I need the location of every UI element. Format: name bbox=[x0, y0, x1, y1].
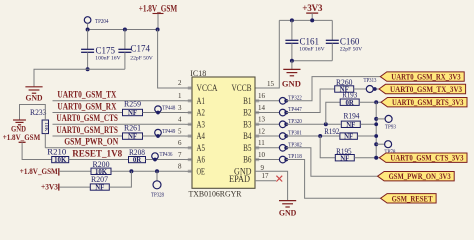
wire B3 to R193 bbox=[326, 102, 341, 124]
svg-text:15: 15 bbox=[267, 80, 275, 88]
junction at C174 bbox=[123, 28, 127, 32]
wire +1.8V to R210 bbox=[22, 142, 52, 159]
wire TP313 to flag TX bbox=[373, 88, 379, 90]
wire B6 to flag RESET bbox=[286, 160, 380, 199]
svg-text:R207: R207 bbox=[91, 175, 108, 184]
wire B1 to flag RX bbox=[286, 77, 380, 101]
svg-text:16: 16 bbox=[258, 92, 266, 100]
test point TP204 bbox=[84, 17, 108, 30]
resistor R260 bbox=[335, 78, 354, 94]
svg-text:A6: A6 bbox=[197, 156, 206, 166]
wire R194 to node bbox=[360, 123, 376, 125]
svg-text:NF: NF bbox=[340, 155, 349, 162]
wire UART0_GSM_TX bbox=[53, 100, 186, 102]
svg-text:TP204: TP204 bbox=[95, 19, 109, 25]
svg-text:+1.8V_GSM: +1.8V_GSM bbox=[3, 132, 41, 142]
svg-text:R259: R259 bbox=[124, 100, 141, 109]
test point TP328 bbox=[151, 171, 164, 198]
junction at C161 bbox=[290, 18, 294, 22]
capacitor C161 bbox=[285, 20, 324, 60]
svg-text:0R: 0R bbox=[133, 157, 141, 164]
svg-text:R233: R233 bbox=[30, 108, 47, 117]
junction node flag CTS bbox=[374, 156, 378, 160]
wire B5 to flag PWR bbox=[286, 148, 377, 176]
svg-text:A1: A1 bbox=[197, 97, 206, 107]
wire R260 to TP313 bbox=[354, 88, 367, 90]
wire B4 to R195 bbox=[320, 136, 335, 158]
test point TP322 bbox=[255, 95, 302, 104]
svg-text:NF: NF bbox=[346, 122, 355, 129]
junction at TP204/C175 bbox=[86, 28, 90, 32]
svg-text:C174: C174 bbox=[131, 44, 151, 54]
resistor R208 bbox=[129, 148, 146, 164]
svg-text:UART0_GSM_RX_3V3: UART0_GSM_RX_3V3 bbox=[391, 72, 461, 82]
svg-text:VCCA: VCCA bbox=[197, 84, 218, 94]
svg-text:GND: GND bbox=[279, 208, 297, 218]
wire OE node bbox=[111, 170, 185, 172]
junction OE/R207 bbox=[129, 169, 133, 173]
svg-text:A5: A5 bbox=[197, 144, 206, 154]
junction node TP78 bbox=[374, 142, 378, 146]
capacitor C160 bbox=[326, 20, 362, 60]
svg-text:R210: R210 bbox=[47, 147, 66, 156]
wire R233 top to ground bbox=[20, 105, 46, 121]
junction B3 branch bbox=[324, 122, 328, 126]
test point TP449 bbox=[155, 129, 176, 138]
junction node R192 bbox=[374, 134, 378, 138]
svg-text:C160: C160 bbox=[340, 37, 360, 47]
test point TP302 bbox=[255, 142, 302, 151]
junction OE/TP328 bbox=[155, 169, 159, 173]
svg-text:+1.8V_GSM: +1.8V_GSM bbox=[20, 166, 58, 176]
capacitor C174 bbox=[118, 30, 152, 70]
power port +1.8V_GSM (bottom) bbox=[20, 166, 59, 176]
wire R193 to flag RTS bbox=[359, 101, 381, 103]
svg-text:R194: R194 bbox=[344, 111, 360, 120]
svg-text:TP93: TP93 bbox=[385, 125, 396, 131]
svg-text:TP436: TP436 bbox=[160, 152, 173, 158]
svg-text:10: 10 bbox=[258, 151, 266, 159]
svg-text:R192: R192 bbox=[324, 127, 339, 136]
svg-text:GSM_PWR_ON_3V3: GSM_PWR_ON_3V3 bbox=[389, 171, 452, 181]
svg-text:7: 7 bbox=[178, 151, 182, 159]
svg-text:B6: B6 bbox=[243, 156, 252, 166]
test point TP118 bbox=[255, 154, 302, 163]
flag UART0_GSM_RTS_3V3 bbox=[381, 98, 467, 107]
svg-text:RESET_1V8: RESET_1V8 bbox=[72, 149, 122, 159]
ground (pin 9) bbox=[279, 201, 297, 218]
wire B4 bbox=[286, 135, 340, 137]
svg-text:UART0_GSM_RTS: UART0_GSM_RTS bbox=[56, 126, 118, 136]
svg-text:UART0_GSM_TX_3V3: UART0_GSM_TX_3V3 bbox=[390, 84, 463, 94]
resistor R194 bbox=[341, 111, 360, 128]
wire +1.8V rail bbox=[88, 29, 158, 31]
wire UART0_GSM_RX right bbox=[143, 112, 186, 114]
junction TP313 bbox=[373, 87, 377, 91]
wire R233 bottom bbox=[44, 134, 46, 148]
junction caps GND join bbox=[86, 67, 90, 71]
wire +3V3 to R207 bbox=[59, 186, 90, 188]
wire UART0_GSM_RTS right bbox=[143, 135, 186, 137]
ground (top-left) bbox=[25, 87, 42, 103]
wire R192 to node bbox=[357, 135, 376, 137]
svg-text:A3: A3 bbox=[197, 120, 206, 130]
svg-text:2: 2 bbox=[178, 79, 182, 87]
svg-text:B2: B2 bbox=[243, 109, 252, 119]
wire caps to ground bbox=[34, 69, 125, 86]
flag GSM_PWR_ON_3V3 bbox=[378, 172, 455, 181]
wire UART0_GSM_RTS left bbox=[53, 135, 123, 137]
flag UART0_GSM_CTS_3V3 bbox=[379, 153, 467, 162]
node vertical bbox=[375, 102, 377, 158]
svg-text:R193: R193 bbox=[342, 91, 357, 100]
svg-text:GND: GND bbox=[26, 93, 43, 103]
svg-text:NF: NF bbox=[128, 134, 137, 141]
wire UART0_GSM_RX left bbox=[53, 112, 123, 114]
resistor R259 bbox=[123, 100, 143, 118]
IC18 left pin stubs and numbers bbox=[185, 87, 192, 89]
resistor R195 bbox=[335, 147, 354, 163]
resistor R193 bbox=[340, 91, 359, 107]
wire UART0_GSM_CTS bbox=[53, 123, 186, 125]
wire C160 bottom join bbox=[292, 60, 332, 62]
svg-text:C175: C175 bbox=[96, 46, 116, 56]
svg-text:100nF 16V: 100nF 16V bbox=[299, 47, 324, 53]
ground (R233) bbox=[11, 120, 26, 134]
power port +3V3 (bottom) bbox=[41, 182, 59, 191]
wire pin9 to ground bbox=[255, 171, 288, 200]
wire GSM_PWR_ON bbox=[45, 147, 185, 149]
svg-text:B5: B5 bbox=[243, 144, 252, 154]
svg-text:22pF 50V: 22pF 50V bbox=[340, 47, 363, 53]
svg-text:0R: 0R bbox=[346, 100, 354, 107]
svg-text:22pF 50V: 22pF 50V bbox=[130, 56, 153, 62]
svg-text:+3V3: +3V3 bbox=[302, 3, 323, 13]
svg-text:NF: NF bbox=[128, 110, 137, 117]
junction +3V3 stub bbox=[310, 18, 314, 22]
svg-text:8: 8 bbox=[178, 163, 182, 171]
svg-text:TXB0106RGYR: TXB0106RGYR bbox=[189, 189, 242, 199]
svg-text:11: 11 bbox=[258, 139, 265, 147]
test point TP320 bbox=[255, 119, 302, 128]
resistor R233 bbox=[30, 108, 49, 133]
resistor R207 bbox=[90, 175, 109, 192]
wire R195 to flag CTS bbox=[354, 157, 379, 159]
wire +3V3 to VCCB bbox=[255, 20, 279, 88]
wire B2 to R260 bbox=[286, 89, 335, 113]
svg-text:R208: R208 bbox=[129, 148, 145, 157]
flag UART0_GSM_TX_3V3 bbox=[379, 84, 466, 93]
junction node TP93 bbox=[374, 117, 378, 121]
svg-text:100nF 16V: 100nF 16V bbox=[95, 56, 120, 62]
resistor R192 bbox=[324, 127, 357, 140]
svg-text:6: 6 bbox=[178, 139, 182, 147]
svg-text:R261: R261 bbox=[124, 123, 141, 132]
svg-text:NF: NF bbox=[95, 185, 104, 192]
svg-text:GSM_RESET: GSM_RESET bbox=[392, 193, 433, 203]
svg-text:UART0_GSM_RTS_3V3: UART0_GSM_RTS_3V3 bbox=[392, 97, 464, 107]
capacitor C175 bbox=[81, 30, 121, 70]
svg-text:B3: B3 bbox=[243, 120, 252, 130]
junction B4 branch bbox=[318, 134, 322, 138]
test point TP436 bbox=[152, 152, 173, 161]
svg-text:UART0_GSM_CTS: UART0_GSM_CTS bbox=[56, 114, 118, 124]
junction caps2 GND join bbox=[290, 59, 294, 63]
wire +3V3 rail bbox=[279, 19, 332, 21]
svg-text:13: 13 bbox=[258, 116, 266, 124]
svg-text:TP448: TP448 bbox=[162, 105, 175, 111]
svg-text:TP449: TP449 bbox=[162, 129, 175, 135]
test point TP313 bbox=[364, 78, 377, 92]
svg-text:UART0_GSM_TX: UART0_GSM_TX bbox=[57, 91, 116, 101]
svg-text:B1: B1 bbox=[243, 97, 252, 107]
resistor R210 bbox=[47, 147, 68, 164]
svg-text:+1.8V_GSM: +1.8V_GSM bbox=[139, 4, 178, 14]
EPAD stub bbox=[255, 180, 276, 182]
svg-text:17: 17 bbox=[262, 172, 270, 180]
wire RESET_1V8 bbox=[69, 159, 129, 161]
svg-text:VCCB: VCCB bbox=[232, 84, 252, 94]
svg-text:UART0_GSM_RX: UART0_GSM_RX bbox=[57, 102, 116, 112]
svg-text:B4: B4 bbox=[243, 132, 252, 142]
flag UART0_GSM_RX_3V3 bbox=[380, 72, 464, 81]
power port +1.8V_GSM (mid-left) bbox=[3, 132, 41, 142]
svg-text:GSM_PWR_ON: GSM_PWR_ON bbox=[64, 138, 118, 148]
svg-text:4: 4 bbox=[178, 116, 182, 124]
svg-text:A2: A2 bbox=[197, 109, 206, 119]
svg-text:10K: 10K bbox=[43, 122, 49, 132]
svg-text:5: 5 bbox=[178, 127, 182, 135]
test point TP448 bbox=[155, 105, 176, 114]
svg-text:IC18: IC18 bbox=[190, 69, 206, 78]
svg-text:A4: A4 bbox=[197, 132, 206, 142]
junction node R194 bbox=[374, 122, 378, 126]
junction at +1.8V stub bbox=[156, 28, 160, 32]
no-connect X on EPAD bbox=[276, 176, 282, 182]
resistor R261 bbox=[123, 123, 143, 140]
svg-text:10K: 10K bbox=[54, 157, 67, 164]
test point TP78 bbox=[376, 141, 395, 156]
wire B3 bbox=[286, 123, 340, 125]
flag GSM_RESET bbox=[381, 194, 437, 203]
svg-text:OE: OE bbox=[197, 167, 206, 177]
svg-text:C161: C161 bbox=[300, 37, 320, 47]
wire +1.8V to R200 bbox=[59, 170, 91, 172]
svg-text:UART0_GSM_CTS_3V3: UART0_GSM_CTS_3V3 bbox=[390, 153, 464, 163]
wire +1.8V to VCCA bbox=[158, 30, 185, 89]
junction node flag RTS bbox=[374, 100, 378, 104]
svg-text:12: 12 bbox=[258, 127, 266, 135]
power port +1.8V_GSM (top) bbox=[139, 4, 178, 30]
resistor R200 bbox=[91, 160, 111, 176]
power port +3V3 bbox=[302, 3, 323, 21]
svg-text:+3V3: +3V3 bbox=[41, 182, 58, 191]
svg-text:NF: NF bbox=[344, 134, 353, 141]
ground (right caps) bbox=[282, 69, 301, 88]
test point TP93 bbox=[376, 115, 396, 130]
svg-text:TP313: TP313 bbox=[364, 78, 377, 84]
svg-text:14: 14 bbox=[258, 104, 266, 112]
test point TP301 bbox=[255, 131, 302, 140]
svg-text:EPAD: EPAD bbox=[229, 175, 250, 185]
op-amp IC18 body bbox=[192, 77, 255, 188]
test point TP447 bbox=[255, 107, 302, 116]
wire R208 to pin7 bbox=[146, 159, 186, 161]
svg-text:3: 3 bbox=[178, 104, 182, 112]
svg-text:1: 1 bbox=[178, 92, 182, 100]
svg-text:TP328: TP328 bbox=[151, 193, 164, 199]
wire to right ground bbox=[291, 61, 293, 69]
svg-text:GND: GND bbox=[282, 78, 301, 88]
wire R207 to OE node bbox=[109, 171, 131, 187]
